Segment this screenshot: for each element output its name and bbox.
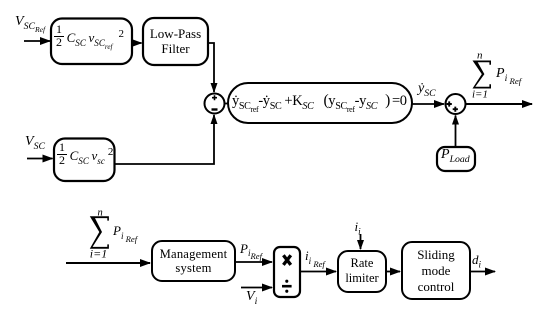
svg-text:n: n	[98, 208, 103, 219]
svg-text:i=1: i=1	[90, 247, 107, 261]
svg-text:n: n	[477, 50, 483, 62]
svg-text:i=1: i=1	[472, 89, 488, 101]
